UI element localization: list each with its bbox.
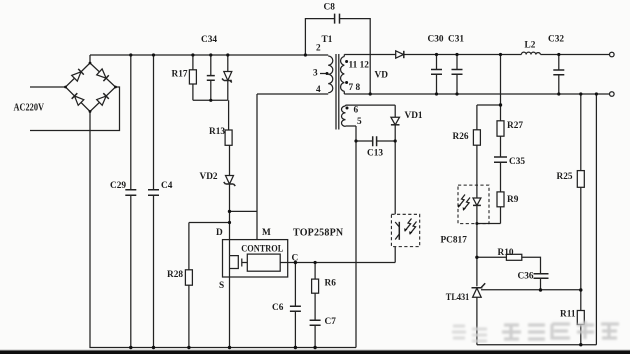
svg-text:6: 6 <box>354 106 359 116</box>
svg-text:AC220V: AC220V <box>14 103 45 114</box>
svg-text:VD: VD <box>375 71 389 81</box>
svg-text:R26: R26 <box>453 132 469 142</box>
svg-text:TOP258PN: TOP258PN <box>293 228 344 239</box>
svg-text:C35: C35 <box>509 157 525 167</box>
svg-text:C8: C8 <box>324 3 336 13</box>
svg-text:C6: C6 <box>272 303 284 313</box>
svg-text:C29: C29 <box>110 181 126 191</box>
svg-text:3: 3 <box>313 69 318 79</box>
svg-text:C30: C30 <box>428 35 444 45</box>
svg-text:R17: R17 <box>172 70 188 80</box>
svg-text:T1: T1 <box>322 35 333 45</box>
svg-text:C34: C34 <box>201 35 217 45</box>
svg-text:VD2: VD2 <box>200 172 218 182</box>
svg-text:S: S <box>219 281 224 291</box>
svg-text:R27: R27 <box>507 121 523 131</box>
svg-text:R25: R25 <box>557 172 573 182</box>
svg-text:L2: L2 <box>525 41 536 51</box>
svg-text:VD1: VD1 <box>405 111 423 121</box>
svg-text:C13: C13 <box>367 149 383 159</box>
svg-text:R28: R28 <box>167 270 183 280</box>
svg-text:R6: R6 <box>325 279 337 289</box>
svg-text:PC817: PC817 <box>441 236 468 246</box>
svg-text:R11: R11 <box>560 310 576 320</box>
svg-text:4: 4 <box>316 85 321 95</box>
svg-text:C31: C31 <box>448 35 464 45</box>
svg-text:C4: C4 <box>161 181 173 191</box>
svg-text:5: 5 <box>357 117 362 127</box>
svg-text:R9: R9 <box>507 195 519 205</box>
svg-text:R13: R13 <box>209 127 225 137</box>
svg-text:CONTROL: CONTROL <box>241 243 283 253</box>
svg-text:11 12: 11 12 <box>349 61 370 71</box>
svg-text:C32: C32 <box>548 35 564 45</box>
svg-text:R10: R10 <box>498 248 514 258</box>
svg-text:D: D <box>216 228 223 238</box>
svg-text:2: 2 <box>316 44 321 54</box>
svg-text:M: M <box>262 228 271 238</box>
svg-text:7 8: 7 8 <box>349 83 361 93</box>
svg-text:C36: C36 <box>518 272 534 282</box>
svg-text:C7: C7 <box>325 317 337 327</box>
svg-text:TL431: TL431 <box>446 293 470 303</box>
svg-text:C: C <box>292 254 299 264</box>
